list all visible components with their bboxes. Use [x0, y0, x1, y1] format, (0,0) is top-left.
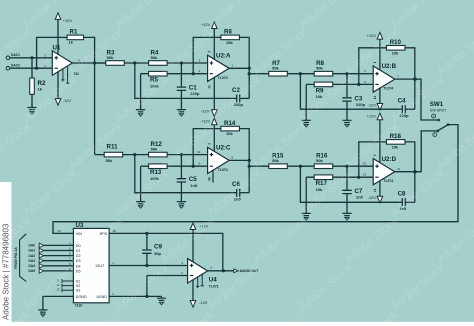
svg-text:U2:A: U2:A — [216, 52, 231, 59]
svg-text:+12V: +12V — [63, 18, 73, 23]
svg-text:C9: C9 — [154, 244, 162, 251]
svg-text:U2:B: U2:B — [382, 63, 397, 70]
svg-text:-12V: -12V — [63, 98, 72, 103]
svg-text:10k: 10k — [226, 131, 233, 136]
svg-text:S1: S1 — [76, 279, 81, 283]
svg-text:S2: S2 — [76, 284, 81, 288]
svg-text:50k: 50k — [151, 147, 158, 152]
svg-text:VIN: VIN — [76, 232, 82, 236]
svg-text:50k: 50k — [272, 66, 279, 71]
svg-text:U2:D: U2:D — [382, 156, 397, 163]
svg-text:DA5: DA5 — [29, 269, 36, 273]
svg-text:R1: R1 — [70, 29, 78, 36]
svg-text:50k: 50k — [151, 55, 158, 60]
svg-text:U4: U4 — [209, 276, 217, 283]
svg-text:220p: 220p — [190, 91, 200, 96]
svg-text:TL074: TL074 — [383, 87, 393, 91]
svg-text:1k: 1k — [69, 40, 74, 45]
svg-text:-12V: -12V — [368, 195, 377, 200]
svg-text:50k: 50k — [316, 158, 323, 163]
svg-text:R11: R11 — [107, 144, 119, 151]
svg-text:DGND: DGND — [76, 295, 87, 299]
svg-text:1n5: 1n5 — [356, 194, 364, 199]
svg-text:R14: R14 — [224, 120, 236, 127]
svg-text:10: 10 — [197, 150, 201, 154]
svg-text:SW1: SW1 — [430, 101, 444, 108]
svg-text:50k: 50k — [106, 158, 113, 163]
svg-text:TL074: TL074 — [218, 168, 228, 172]
svg-text:SW-SPDT: SW-SPDT — [430, 109, 447, 113]
svg-text:R6: R6 — [224, 29, 232, 36]
svg-text:DA0: DA0 — [29, 244, 36, 248]
svg-text:DA1: DA1 — [29, 249, 36, 253]
svg-text:DA4: DA4 — [29, 264, 36, 268]
svg-text:12: 12 — [363, 162, 367, 166]
svg-text:15: 15 — [57, 229, 61, 233]
svg-text:7110: 7110 — [75, 304, 83, 308]
svg-text:50k: 50k — [107, 55, 114, 60]
svg-text:15k: 15k — [392, 144, 399, 149]
svg-text:1k: 1k — [38, 87, 43, 92]
svg-text:FROM PIO-1A: FROM PIO-1A — [14, 247, 18, 269]
svg-text:TL074: TL074 — [383, 179, 393, 183]
svg-text:DA3: DA3 — [29, 259, 36, 263]
svg-text:220p: 220p — [356, 102, 366, 107]
svg-text:DAC1: DAC1 — [11, 53, 20, 57]
svg-text:TL074: TL074 — [218, 76, 228, 80]
svg-text:Adobe Stock | #778496803: Adobe Stock | #778496803 — [2, 223, 11, 320]
svg-text:50k: 50k — [316, 66, 323, 71]
svg-text:U2:C: U2:C — [216, 145, 231, 152]
svg-text:+12V: +12V — [367, 114, 377, 119]
svg-text:15k: 15k — [226, 40, 233, 45]
svg-text:S3: S3 — [76, 289, 81, 293]
svg-text:DAC2: DAC2 — [11, 64, 20, 68]
svg-text:U1: U1 — [53, 44, 61, 51]
svg-text:+12V: +12V — [367, 33, 377, 38]
svg-text:14: 14 — [397, 167, 401, 171]
svg-text:10k: 10k — [392, 50, 399, 55]
svg-text:13: 13 — [363, 173, 367, 177]
svg-text:-12V: -12V — [368, 102, 377, 107]
svg-text:U3: U3 — [76, 222, 84, 229]
svg-text:IOUT: IOUT — [96, 264, 106, 268]
svg-text:TL071: TL071 — [209, 285, 219, 289]
svg-text:1n5: 1n5 — [190, 183, 198, 188]
svg-text:AGND: AGND — [96, 295, 107, 299]
svg-text:DA2: DA2 — [29, 254, 36, 258]
